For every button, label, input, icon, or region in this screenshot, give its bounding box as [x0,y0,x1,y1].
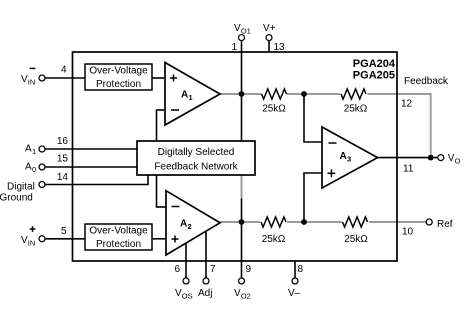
svg-text:O1: O1 [241,27,251,36]
svg-text:Digitally Selected: Digitally Selected [158,147,235,158]
svg-text:7: 7 [210,264,216,275]
svg-text:12: 12 [401,99,413,110]
svg-text:14: 14 [57,172,69,183]
svg-text:5: 5 [61,226,67,237]
svg-text:1: 1 [32,147,36,156]
svg-text:A: A [181,90,188,101]
svg-text:Digital: Digital [7,182,35,193]
svg-text:1: 1 [231,42,237,53]
svg-text:O2: O2 [241,292,251,301]
svg-text:O: O [455,157,461,166]
svg-text:16: 16 [57,136,69,147]
svg-text:25kΩ: 25kΩ [262,234,286,245]
svg-text:13: 13 [274,42,286,53]
svg-text:2: 2 [188,222,192,231]
svg-text:A: A [180,219,187,230]
svg-text:PGA204: PGA204 [353,58,396,70]
svg-text:A: A [340,151,347,162]
svg-text:9: 9 [246,264,252,275]
svg-text:V+: V+ [263,23,276,34]
svg-text:IN: IN [28,78,36,87]
svg-text:0: 0 [32,165,36,174]
svg-text:A: A [25,144,32,155]
svg-text:Over-Voltage: Over-Voltage [89,225,148,236]
svg-text:Feedback Network: Feedback Network [154,162,238,173]
svg-text:3: 3 [347,155,351,164]
svg-text:V–: V– [288,288,301,299]
svg-text:1: 1 [189,93,193,102]
svg-text:15: 15 [57,154,69,165]
svg-text:Feedback: Feedback [404,76,449,87]
svg-text:OS: OS [182,292,193,301]
svg-text:11: 11 [403,164,414,175]
svg-text:Adj: Adj [198,288,212,299]
svg-text:10: 10 [402,226,414,237]
svg-text:Ref: Ref [437,219,453,230]
svg-text:25kΩ: 25kΩ [344,234,368,245]
svg-text:6: 6 [174,264,180,275]
svg-text:A: A [25,162,32,173]
svg-text:Ground: Ground [0,193,33,204]
svg-text:8: 8 [298,264,304,275]
svg-text:PGA205: PGA205 [353,70,395,82]
svg-text:Protection: Protection [96,79,141,90]
svg-text:4: 4 [61,65,67,76]
svg-text:Protection: Protection [96,239,141,250]
svg-text:25kΩ: 25kΩ [344,104,368,115]
svg-text:25kΩ: 25kΩ [262,104,286,115]
svg-text:IN: IN [28,239,36,248]
svg-text:Over-Voltage: Over-Voltage [89,65,148,76]
